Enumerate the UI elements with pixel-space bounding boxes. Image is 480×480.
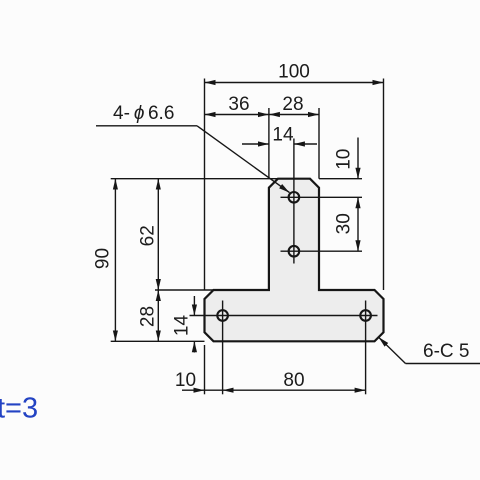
extension line left edge (for 100)	[204, 79, 206, 291]
svg-text:90: 90	[93, 248, 114, 269]
hole H3	[217, 310, 228, 321]
svg-text:10: 10	[334, 149, 355, 170]
centerline horizontal hole H2	[281, 250, 363, 252]
centerline vertical through stem holes	[293, 139, 295, 264]
svg-text:6-C 5: 6-C 5	[423, 341, 469, 362]
extension line stem left (for 36/28/14)	[268, 108, 270, 179]
centerline vertical hole H3	[222, 301, 224, 395]
dimension 62 left	[138, 179, 159, 290]
plate body (T-shaped, chamfered corners)	[205, 179, 384, 342]
svg-text:10: 10	[175, 370, 196, 391]
dimension 10 right (arrow outside above)	[334, 138, 359, 179]
svg-text:14: 14	[172, 315, 193, 337]
centerline horizontal bar holes	[190, 315, 378, 317]
extension line stem top extended left (for 90/62)	[111, 178, 278, 180]
dimension 80 bottom	[205, 370, 366, 391]
svg-text:80: 80	[283, 370, 304, 391]
svg-text:30: 30	[334, 213, 355, 234]
dimension 30 right	[334, 197, 359, 251]
dimension 14 left (arrows outside)	[172, 296, 195, 353]
centerline horizontal hole H1	[281, 196, 363, 198]
svg-text:4-ϕ6.6: 4-ϕ6.6	[113, 103, 174, 124]
dimension 90 left	[93, 179, 116, 342]
extension line bottom extended left (for 90/28)	[111, 340, 205, 342]
svg-text:28: 28	[282, 94, 303, 115]
centerline vertical hole H4	[365, 301, 367, 395]
svg-text:36: 36	[228, 94, 249, 115]
svg-text:28: 28	[138, 306, 159, 327]
svg-text:100: 100	[278, 62, 310, 83]
svg-text:62: 62	[138, 225, 159, 246]
extension line plate left extended down (for 10 bottom)	[204, 345, 206, 394]
dimension 10 bottom (arrow outside left)	[175, 370, 205, 391]
leader 4-phi6.6	[96, 103, 290, 193]
extension line stem right (for 28)	[318, 108, 320, 179]
leader 6-C5	[379, 337, 480, 363]
dimension 28 left	[138, 290, 159, 341]
extension line bar top extended left (for 62/28)	[155, 289, 269, 291]
hole H2	[289, 246, 300, 257]
hole H1	[289, 192, 300, 203]
dimension 100	[205, 62, 384, 83]
dimension 14 top (arrows outside)	[242, 125, 317, 146]
dimension 36	[205, 94, 269, 115]
dimension 28 top	[269, 94, 319, 115]
svg-text:14: 14	[272, 125, 294, 146]
extension line right edge (for 100)	[383, 79, 385, 291]
hole H4	[360, 310, 371, 321]
note t=3 (blue)	[0, 392, 38, 424]
svg-text:t=3: t=3	[0, 392, 38, 424]
extension line stem top extended right (for 10)	[319, 178, 362, 180]
